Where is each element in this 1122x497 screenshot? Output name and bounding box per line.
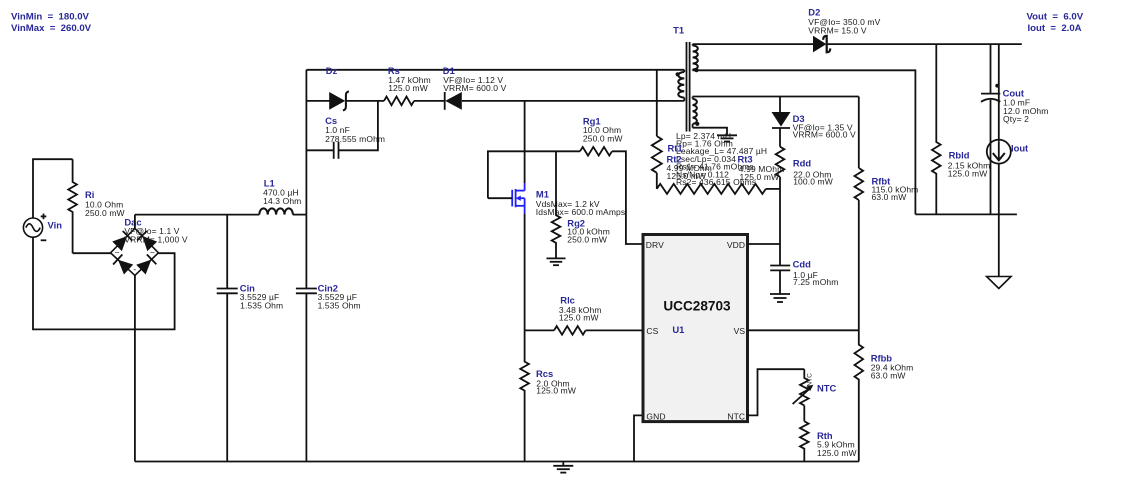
svg-text:U1: U1 xyxy=(672,324,684,335)
svg-text:-: - xyxy=(133,264,136,274)
wire top rail to transformer primary xyxy=(306,69,684,71)
capacitor Cs xyxy=(338,142,340,159)
capacitor Cdd xyxy=(779,244,781,266)
wire D3 branch xyxy=(779,97,781,113)
svg-text:Iout: Iout xyxy=(1011,142,1028,153)
wire CS node to Rlc xyxy=(525,329,555,331)
svg-text:Rbld: Rbld xyxy=(949,149,970,160)
svg-text:250.0 mW: 250.0 mW xyxy=(85,208,125,218)
wire Vin+ to Ri top xyxy=(33,159,73,218)
wire Iout to earth xyxy=(998,214,1000,277)
wire M1 source down to CS node xyxy=(524,214,526,331)
resistor Rth xyxy=(800,421,809,461)
wire secondary top lead to D2 xyxy=(693,43,815,45)
wire secondary bottom lead / output return xyxy=(693,70,916,214)
diode D2 xyxy=(813,36,826,53)
primary ground rail xyxy=(135,461,859,463)
transformer T1 primary winding xyxy=(678,72,684,98)
diode bridge Dac outline xyxy=(111,228,159,275)
wire bridge bottom to ground rail xyxy=(134,275,136,461)
bridge diode D-bottom-right (Dac) xyxy=(136,254,156,274)
wire VDD pin xyxy=(748,243,781,245)
wire Rlc to CS pin xyxy=(586,329,643,331)
ground at Cdd xyxy=(770,293,790,295)
wire output rail Vout+ xyxy=(827,43,1022,45)
svg-text:NTC: NTC xyxy=(807,373,814,387)
ground symbol on rail xyxy=(562,462,564,466)
svg-text:~: ~ xyxy=(150,247,155,257)
svg-text:278.555 mOhm: 278.555 mOhm xyxy=(325,134,385,144)
svg-text:VRRM= 15.0 V: VRRM= 15.0 V xyxy=(808,25,867,35)
output return rail xyxy=(915,213,1017,215)
svg-text:Vout = 6.0V: Vout = 6.0V xyxy=(1027,12,1084,23)
svg-text:IdsMax= 600.0 mAmps: IdsMax= 600.0 mAmps xyxy=(536,207,625,217)
svg-text:Dz: Dz xyxy=(326,65,338,76)
thermistor NTC xyxy=(800,369,809,405)
resistor Rlc xyxy=(554,326,586,335)
svg-text:1.535 Ohm: 1.535 Ohm xyxy=(318,300,361,310)
resistor Rbld xyxy=(932,44,941,214)
svg-text:14.3 Ohm: 14.3 Ohm xyxy=(263,196,301,206)
wire Rg1 to DRV pin xyxy=(612,151,643,244)
resistor Rg1 xyxy=(580,147,612,156)
svg-text:7.25 mOhm: 7.25 mOhm xyxy=(793,277,839,287)
svg-text:D1: D1 xyxy=(443,65,455,76)
resistor Rt3 xyxy=(711,184,766,194)
svg-text:125.0 mW: 125.0 mW xyxy=(559,313,599,323)
svg-text:Rt1: Rt1 xyxy=(668,142,683,153)
transformer T1 secondary winding (top) xyxy=(693,46,698,70)
svg-text:Rlc: Rlc xyxy=(560,294,575,305)
wire drain node down to M1 xyxy=(524,101,526,183)
transistor M1 (NMOS) xyxy=(512,183,524,214)
svg-text:GND: GND xyxy=(646,412,665,422)
wire GND pin notch xyxy=(634,415,643,461)
wire aux winding bottom to ground xyxy=(693,128,727,136)
bridge diode D-left-top (Dac) xyxy=(112,231,132,251)
svg-text:Iout = 2.0A: Iout = 2.0A xyxy=(1028,23,1082,34)
diode D1 xyxy=(444,92,446,110)
bridge diode D-right-top (Dac) xyxy=(137,231,157,251)
resistor Rt2 xyxy=(657,184,711,194)
wire Ri bottom to bridge left corner xyxy=(73,252,111,254)
wire Vin- to bridge right corner xyxy=(33,237,175,329)
ground at auxiliary winding xyxy=(717,134,737,136)
wire gate loop to Rg1 xyxy=(488,151,580,198)
wire aux winding top lead xyxy=(693,96,859,98)
svg-text:125.0 mW: 125.0 mW xyxy=(948,169,988,179)
op-amp U1 UCC28703 controller box xyxy=(643,235,748,422)
wire Dz to Rs with Cs tap xyxy=(347,100,384,102)
svg-text:VinMin = 180.0V: VinMin = 180.0V xyxy=(11,11,90,22)
bridge diode D-bottom-left (Dac) xyxy=(113,254,133,274)
svg-text:100.0 mW: 100.0 mW xyxy=(793,177,833,187)
wire bridge top to bulk rail xyxy=(134,215,136,229)
wire top rail to Rt1 xyxy=(656,70,658,136)
svg-text:250.0 mW: 250.0 mW xyxy=(583,134,623,144)
svg-text:Rdd: Rdd xyxy=(793,158,811,169)
svg-text:63.0 mW: 63.0 mW xyxy=(872,192,907,202)
wire Rs to D1 xyxy=(414,100,445,102)
wire snubber rail left segment xyxy=(306,100,329,102)
svg-text:DRV: DRV xyxy=(646,240,664,250)
capacitor Cout (polarized) xyxy=(990,44,992,94)
wire M1 gate xyxy=(488,197,512,199)
wire NTC pin to thermistor xyxy=(748,369,805,415)
auxiliary phase dot xyxy=(695,122,699,126)
svg-text:CS: CS xyxy=(646,326,658,336)
ground at Rg2 xyxy=(547,257,566,259)
wire D1 to primary bottom / drain node xyxy=(462,100,684,102)
svg-text:VDD: VDD xyxy=(727,240,745,250)
wire Rt1 to Rt2 xyxy=(656,173,658,189)
transformer T1 auxiliary winding (bottom) xyxy=(693,99,697,124)
svg-text:VS: VS xyxy=(734,326,746,336)
svg-text:125.0 mW: 125.0 mW xyxy=(388,83,428,93)
svg-text:Cdd: Cdd xyxy=(793,259,811,270)
resistor Rg2 xyxy=(552,151,561,258)
resistor Rs xyxy=(384,97,414,106)
wire aux to Rfbt xyxy=(858,97,860,169)
primary phase dot xyxy=(676,72,680,76)
wire bulk rail to L1 xyxy=(135,214,259,216)
svg-text:~: ~ xyxy=(114,247,119,257)
svg-text:125.0 mW: 125.0 mW xyxy=(536,386,576,396)
svg-text:63.0 mW: 63.0 mW xyxy=(871,371,906,381)
resistor Rfbb xyxy=(855,330,864,461)
AC source Vin xyxy=(23,218,42,237)
NTC arrow xyxy=(793,388,811,404)
svg-text:125.0 mW: 125.0 mW xyxy=(740,172,780,182)
svg-text:VRRM= 1,000 V: VRRM= 1,000 V xyxy=(124,235,187,245)
capacitor Cs branch right wire xyxy=(339,101,378,150)
current source Iout xyxy=(998,44,1000,142)
capacitor Cin xyxy=(226,215,228,289)
Cout polarity dot xyxy=(995,84,999,88)
inductor L1 xyxy=(259,208,293,214)
svg-text:1.535 Ohm: 1.535 Ohm xyxy=(240,300,283,310)
svg-text:250.0 mW: 250.0 mW xyxy=(567,235,607,245)
wire Rt3 to Rdd line xyxy=(766,188,781,190)
zener diode Dz xyxy=(329,92,345,110)
earth symbol (output) xyxy=(987,277,1011,289)
svg-text:125.0 mW: 125.0 mW xyxy=(667,171,707,181)
svg-text:UCC28703: UCC28703 xyxy=(663,299,731,314)
wire NTC to Rth xyxy=(803,405,805,421)
wire L1 to bulk node xyxy=(293,214,307,216)
svg-text:VRRM= 600.0 V: VRRM= 600.0 V xyxy=(443,83,506,93)
wire Rfbt to VS node xyxy=(858,200,860,330)
svg-text:Rcs: Rcs xyxy=(536,368,553,379)
secondary phase dot xyxy=(694,68,698,72)
svg-text:125.0 mW: 125.0 mW xyxy=(817,448,857,458)
capacitor Cin2 xyxy=(305,215,307,289)
svg-text:T1: T1 xyxy=(673,24,684,35)
resistor Rdd xyxy=(776,147,785,177)
resistor Rfbt xyxy=(855,168,864,200)
wire Rdd to VDD node xyxy=(779,177,781,244)
wire bulk vertical up to top rail xyxy=(305,70,307,215)
diode D3 xyxy=(772,112,791,127)
wire VS pin xyxy=(748,329,859,331)
svg-text:Qty= 2: Qty= 2 xyxy=(1003,114,1029,124)
wire D3 to Rdd xyxy=(779,128,781,147)
resistor Rt1 xyxy=(652,136,662,173)
svg-text:Rs: Rs xyxy=(388,65,400,76)
svg-text:VRRM= 600.0 V: VRRM= 600.0 V xyxy=(793,130,856,140)
resistor Rcs xyxy=(520,330,529,461)
svg-text:NTC: NTC xyxy=(727,412,745,422)
wire Cs to bulk vertical xyxy=(306,149,333,151)
resistor Ri xyxy=(68,159,77,253)
svg-text:Vin: Vin xyxy=(48,219,63,230)
transformer T1 core xyxy=(686,42,688,132)
svg-text:NTC: NTC xyxy=(817,383,836,394)
svg-text:VinMax = 260.0V: VinMax = 260.0V xyxy=(11,23,92,34)
